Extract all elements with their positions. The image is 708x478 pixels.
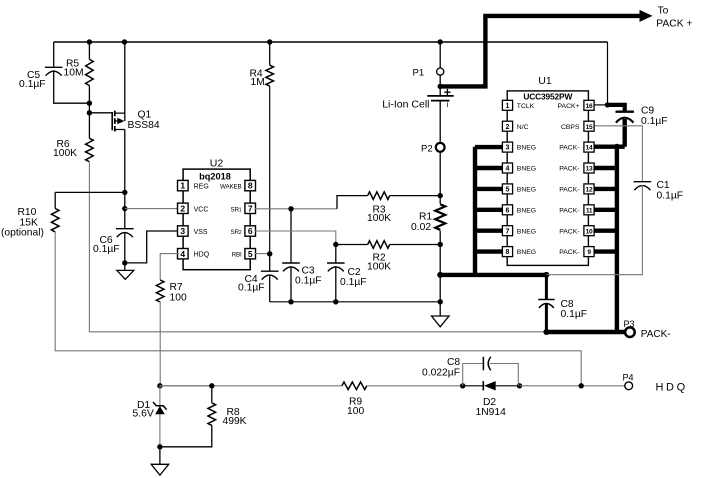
wire RBI stub xyxy=(255,253,270,255)
wire caps common xyxy=(270,301,441,303)
junction C6-gnd xyxy=(122,260,127,265)
svg-text:BNEG: BNEG xyxy=(517,228,536,235)
svg-text:14: 14 xyxy=(586,145,593,152)
junction C2-gnd line xyxy=(333,299,338,304)
wire BNEG stub pin 7 xyxy=(475,228,503,232)
junction pin14-bus xyxy=(614,144,620,150)
svg-text:VSS: VSS xyxy=(194,229,208,236)
resistor R4 xyxy=(266,65,274,86)
connector P4 xyxy=(625,382,633,390)
arrow To PACK+ xyxy=(640,10,653,22)
svg-text:C8: C8 xyxy=(561,299,574,310)
wire D2 left lead xyxy=(463,385,484,387)
capacitor C3 xyxy=(282,262,300,264)
capacitor C4 xyxy=(261,270,279,272)
svg-text:1N914: 1N914 xyxy=(476,407,507,418)
pin 15 U1 xyxy=(584,121,594,131)
diode D2 xyxy=(482,381,484,390)
capacitor C8 pack xyxy=(545,275,548,300)
svg-text:3: 3 xyxy=(180,226,185,236)
wire PACK- stub pin 9 xyxy=(592,249,617,253)
pin 10 U1 xyxy=(584,226,594,236)
diode D1 zener xyxy=(153,402,167,410)
wire C4 top lead xyxy=(269,254,271,271)
svg-text:0.1µF: 0.1µF xyxy=(93,244,120,255)
junction rail-battery xyxy=(438,39,443,44)
svg-text:SR2: SR2 xyxy=(231,229,242,236)
IC U2 outline xyxy=(183,169,250,270)
wire R4 top lead xyxy=(269,42,271,65)
svg-text:PACK-: PACK- xyxy=(559,166,579,173)
pin 5 U1 xyxy=(502,184,512,194)
svg-text:PACK-: PACK- xyxy=(559,145,579,152)
svg-text:C9: C9 xyxy=(641,106,654,117)
svg-text:P2: P2 xyxy=(421,144,433,155)
connector P3 xyxy=(625,327,635,337)
capacitor C8 hdq xyxy=(482,357,484,371)
svg-text:0.1µF: 0.1µF xyxy=(657,191,684,202)
resistor R8 xyxy=(208,403,216,426)
wire CBPS to C1 xyxy=(593,126,643,182)
wire PACK- stub pin 10 xyxy=(592,228,617,232)
resistor R7 xyxy=(156,280,164,302)
wire R9 to D2 xyxy=(367,385,463,387)
wire R10 to HDQ xyxy=(55,232,581,386)
resistor R5 xyxy=(86,59,94,85)
wire R3 to R1 top xyxy=(390,195,441,197)
svg-text:3: 3 xyxy=(506,145,510,152)
svg-text:1: 1 xyxy=(506,103,510,110)
wire R8 bottom jog xyxy=(160,425,212,446)
capacitor C5 xyxy=(45,66,63,68)
wire thick BNEG bottom xyxy=(440,273,546,277)
pin 5 U2 xyxy=(245,249,256,259)
battery Li-Ion cell xyxy=(427,95,453,97)
svg-text:RBI: RBI xyxy=(232,252,242,259)
junction D2 anode node xyxy=(460,383,465,388)
svg-text:PACK-: PACK- xyxy=(641,329,671,340)
pin 13 U1 xyxy=(584,163,594,173)
svg-text:BSS84: BSS84 xyxy=(128,120,160,131)
wire rail drop to U1 pin16 xyxy=(607,42,609,105)
wire Q1 source to rail xyxy=(124,42,126,121)
wire HDQ left run xyxy=(160,385,342,387)
svg-text:10M: 10M xyxy=(64,67,84,78)
svg-text:To: To xyxy=(658,5,669,16)
wire U2 HDQ to R7 xyxy=(160,254,179,280)
svg-text:CBPS: CBPS xyxy=(561,124,580,131)
resistor R6 xyxy=(86,138,94,161)
svg-text:P3: P3 xyxy=(624,319,635,329)
junction battery-PACK+ takeoff xyxy=(438,84,443,89)
wire BNEG stub pin 3 xyxy=(475,145,503,149)
pin 3 U1 xyxy=(502,142,512,152)
pin 7 U2 xyxy=(245,203,256,213)
svg-text:499K: 499K xyxy=(223,416,247,427)
wire SR2 xyxy=(255,231,336,245)
svg-text:7: 7 xyxy=(506,228,510,235)
wire rail to P1 xyxy=(439,42,441,68)
wire BNEG stub pin 5 xyxy=(475,187,503,191)
junction C8-PACK- line xyxy=(543,329,549,335)
resistor R10 xyxy=(51,209,59,232)
wire R1 bottom lead xyxy=(439,231,441,275)
junction R10-HDQ xyxy=(579,383,584,388)
svg-text:REG: REG xyxy=(194,184,209,191)
svg-text:5.6V: 5.6V xyxy=(133,408,154,419)
pin 6 U2 xyxy=(245,226,256,236)
svg-text:HDQ: HDQ xyxy=(656,381,688,393)
wire R7 to D1 node xyxy=(159,302,161,386)
wire PACK- bus xyxy=(615,147,619,332)
wire C4 bottom xyxy=(269,275,271,302)
capacitor C1 xyxy=(634,181,652,183)
svg-text:PACK-: PACK- xyxy=(559,187,579,194)
svg-text:(optional): (optional) xyxy=(1,227,44,238)
wire C1 bottom xyxy=(546,185,642,275)
svg-text:BNEG: BNEG xyxy=(517,207,536,214)
svg-text:5: 5 xyxy=(506,187,510,194)
svg-text:Li-Ion Cell: Li-Ion Cell xyxy=(382,98,429,110)
pin 2 U1 xyxy=(502,121,512,131)
resistor R1 xyxy=(435,204,445,230)
wire C2 top lead xyxy=(335,245,337,264)
junction BNEG-C8 xyxy=(543,272,549,278)
svg-text:bq2018: bq2018 xyxy=(199,172,231,182)
junction SR1-C3 xyxy=(288,206,293,211)
wire R1 leads xyxy=(439,196,441,204)
wire C8b left bracket xyxy=(463,364,484,386)
junction C5-R5 xyxy=(87,101,92,106)
junction RBI-R4-C4 xyxy=(267,251,272,256)
svg-text:UCC3952PW: UCC3952PW xyxy=(523,91,572,101)
wire C5 branch xyxy=(53,42,55,67)
transistor Q1 xyxy=(112,111,125,132)
junction rail-R4 xyxy=(267,39,272,44)
svg-text:0.022µF: 0.022µF xyxy=(422,367,460,378)
wire thick node to C9 xyxy=(608,105,625,112)
pin 6 U1 xyxy=(502,205,512,215)
wire R2 to R1 bottom xyxy=(390,244,441,246)
wire BNEG bus xyxy=(473,147,477,275)
pin 12 U1 xyxy=(584,184,594,194)
pin 14 U1 xyxy=(584,142,594,152)
wire SR1 to R3 xyxy=(337,196,368,209)
wire R8 top lead xyxy=(211,386,213,403)
svg-text:12: 12 xyxy=(586,187,593,194)
wire PACK- stub pin 11 xyxy=(592,208,617,212)
junction PACK+ node xyxy=(605,102,610,107)
pin 2 U2 xyxy=(178,203,189,213)
svg-text:10: 10 xyxy=(586,228,593,235)
junction drain-R10 xyxy=(122,190,127,195)
svg-text:2: 2 xyxy=(506,124,510,131)
wire R10 upper lead xyxy=(54,192,56,208)
junction rail-Q1 xyxy=(122,39,127,44)
pin 4 U1 xyxy=(502,163,512,173)
svg-text:5: 5 xyxy=(248,249,253,259)
wire P2 to R1 xyxy=(439,152,441,196)
junction R1 top xyxy=(438,193,443,198)
wire BNEG stub pin 4 xyxy=(475,166,503,170)
wire D1 vertical xyxy=(159,386,161,447)
svg-text:VCC: VCC xyxy=(194,206,209,213)
resistor R9 xyxy=(342,382,367,390)
pin 7 U1 xyxy=(502,226,512,236)
ground below R1 xyxy=(432,302,450,327)
wire battery to P2 xyxy=(439,101,441,143)
wire Q1 drain down xyxy=(124,130,126,229)
capacitor C6 xyxy=(116,228,134,230)
svg-text:7: 7 xyxy=(248,203,253,213)
svg-text:R7: R7 xyxy=(170,282,183,293)
resistor R3 xyxy=(368,192,390,200)
wire VCC to U2 pin2 xyxy=(125,208,179,210)
svg-text:2: 2 xyxy=(180,203,185,213)
pin 1 U1 xyxy=(502,100,512,110)
svg-text:U1: U1 xyxy=(538,75,552,87)
wire thick PACK+ run xyxy=(440,16,641,87)
svg-text:R1: R1 xyxy=(419,211,432,222)
svg-text:PACK-: PACK- xyxy=(559,249,579,256)
svg-text:13: 13 xyxy=(586,166,593,173)
svg-text:N/C: N/C xyxy=(517,124,529,131)
pin 16 U1 xyxy=(584,100,594,110)
connector P1 xyxy=(437,68,444,75)
svg-text:100K: 100K xyxy=(53,148,77,159)
svg-text:8: 8 xyxy=(506,249,510,256)
wire R5 top lead xyxy=(88,42,90,59)
pin 8 U2 xyxy=(245,180,256,190)
wire pin14 to C9 bottom xyxy=(592,144,625,148)
pin 4 U2 xyxy=(178,249,189,259)
wire R6 to PACK- sense xyxy=(89,162,546,332)
wire SR1 xyxy=(255,208,338,210)
svg-text:BNEG: BNEG xyxy=(517,249,536,256)
svg-text:WAKEB: WAKEB xyxy=(220,184,242,191)
svg-text:PACK-: PACK- xyxy=(559,228,579,235)
svg-text:BNEG: BNEG xyxy=(517,187,536,194)
wire HDQ right run xyxy=(520,385,625,387)
wire VSS jog xyxy=(125,231,179,263)
svg-text:HDQ: HDQ xyxy=(194,252,210,259)
wire D2 right lead xyxy=(496,385,520,387)
svg-text:i: i xyxy=(447,100,449,109)
svg-text:BNEG: BNEG xyxy=(517,145,536,152)
svg-text:0.1µF: 0.1µF xyxy=(641,116,668,127)
wire R1 to gnd line xyxy=(439,275,441,302)
svg-text:100K: 100K xyxy=(367,261,391,272)
wire R2 leads xyxy=(336,244,368,246)
pin 1 U2 xyxy=(178,180,189,190)
svg-text:11: 11 xyxy=(586,207,593,214)
wire BNEG stub pin 8 xyxy=(475,249,503,253)
svg-text:6: 6 xyxy=(506,207,510,214)
svg-text:PACK-: PACK- xyxy=(559,207,579,214)
ground below D1 xyxy=(151,447,169,475)
svg-text:100: 100 xyxy=(347,406,364,417)
junction R1-BNEG xyxy=(437,272,443,278)
wire C2 bottom xyxy=(335,266,337,302)
wire PACK- stub pin 13 xyxy=(592,166,617,170)
junction SR2-C2-R2 xyxy=(333,242,338,247)
junction VCC wire xyxy=(122,206,127,211)
svg-text:TCLK: TCLK xyxy=(517,103,535,110)
svg-text:SR1: SR1 xyxy=(231,206,242,213)
junction R8 top xyxy=(209,383,214,388)
capacitor C9 xyxy=(616,110,634,112)
connector P2 xyxy=(436,143,445,152)
wire R10 top xyxy=(55,191,125,193)
pin 3 U2 xyxy=(178,226,189,236)
svg-text:8: 8 xyxy=(248,181,253,191)
wire C3 bottom xyxy=(290,266,292,302)
svg-text:0.1µF: 0.1µF xyxy=(295,276,322,287)
svg-text:0.1µF: 0.1µF xyxy=(19,79,46,90)
svg-text:6: 6 xyxy=(248,226,253,236)
junction R1 bottom xyxy=(438,242,443,247)
wire P1 to battery xyxy=(439,75,441,96)
wire C3 top lead xyxy=(290,209,292,263)
pin 8 U1 xyxy=(502,247,512,257)
svg-text:1M: 1M xyxy=(251,77,265,88)
wire C6 bottom xyxy=(124,232,126,263)
junction D1 top xyxy=(157,383,162,388)
svg-text:16: 16 xyxy=(586,103,593,110)
svg-text:0.02: 0.02 xyxy=(411,222,431,233)
svg-text:C1: C1 xyxy=(657,180,670,191)
svg-text:P1: P1 xyxy=(413,68,425,79)
pin 11 U1 xyxy=(584,205,594,215)
capacitor C2 xyxy=(327,262,345,264)
junction D2 cathode node xyxy=(517,383,522,388)
junction gate node xyxy=(87,110,92,115)
junction D1-R8 bottom xyxy=(157,444,162,449)
wire Q1 gate xyxy=(89,112,112,114)
svg-text:0.1µF: 0.1µF xyxy=(340,277,367,288)
wire C8b right bracket xyxy=(490,364,519,386)
wire R4 to RBI xyxy=(269,86,271,254)
wire thick PACK- bottom xyxy=(546,330,624,334)
junction C3-gnd line xyxy=(288,299,293,304)
pin 9 U1 xyxy=(584,247,594,257)
svg-text:BNEG: BNEG xyxy=(517,166,536,173)
svg-text:15: 15 xyxy=(586,124,593,131)
svg-text:U2: U2 xyxy=(210,158,224,170)
svg-text:4: 4 xyxy=(180,249,185,259)
svg-text:100K: 100K xyxy=(367,213,391,224)
svg-text:P4: P4 xyxy=(623,373,634,383)
IC U1 outline xyxy=(507,91,588,266)
wire PACK- stub pin 12 xyxy=(592,187,617,191)
wire R6 top lead xyxy=(88,113,90,139)
wire HDQ node to R8 xyxy=(160,385,212,387)
wire R5 bottom lead xyxy=(88,86,90,113)
resistor R2 xyxy=(368,241,390,249)
svg-text:PACK +: PACK + xyxy=(656,19,692,30)
svg-text:4: 4 xyxy=(506,166,510,173)
junction gnd-caps line xyxy=(438,299,443,304)
svg-text:0.1µF: 0.1µF xyxy=(238,283,265,294)
svg-text:0.1µF: 0.1µF xyxy=(561,309,588,320)
svg-text:1: 1 xyxy=(180,181,185,191)
svg-text:PACK+: PACK+ xyxy=(558,103,580,110)
wire BNEG stub pin 6 xyxy=(475,208,503,212)
wire top rail xyxy=(54,41,608,43)
svg-text:100: 100 xyxy=(170,293,187,304)
wire pin16 to node xyxy=(593,104,608,106)
ground below C6 xyxy=(117,263,134,279)
junction rail-R5 xyxy=(87,39,92,44)
